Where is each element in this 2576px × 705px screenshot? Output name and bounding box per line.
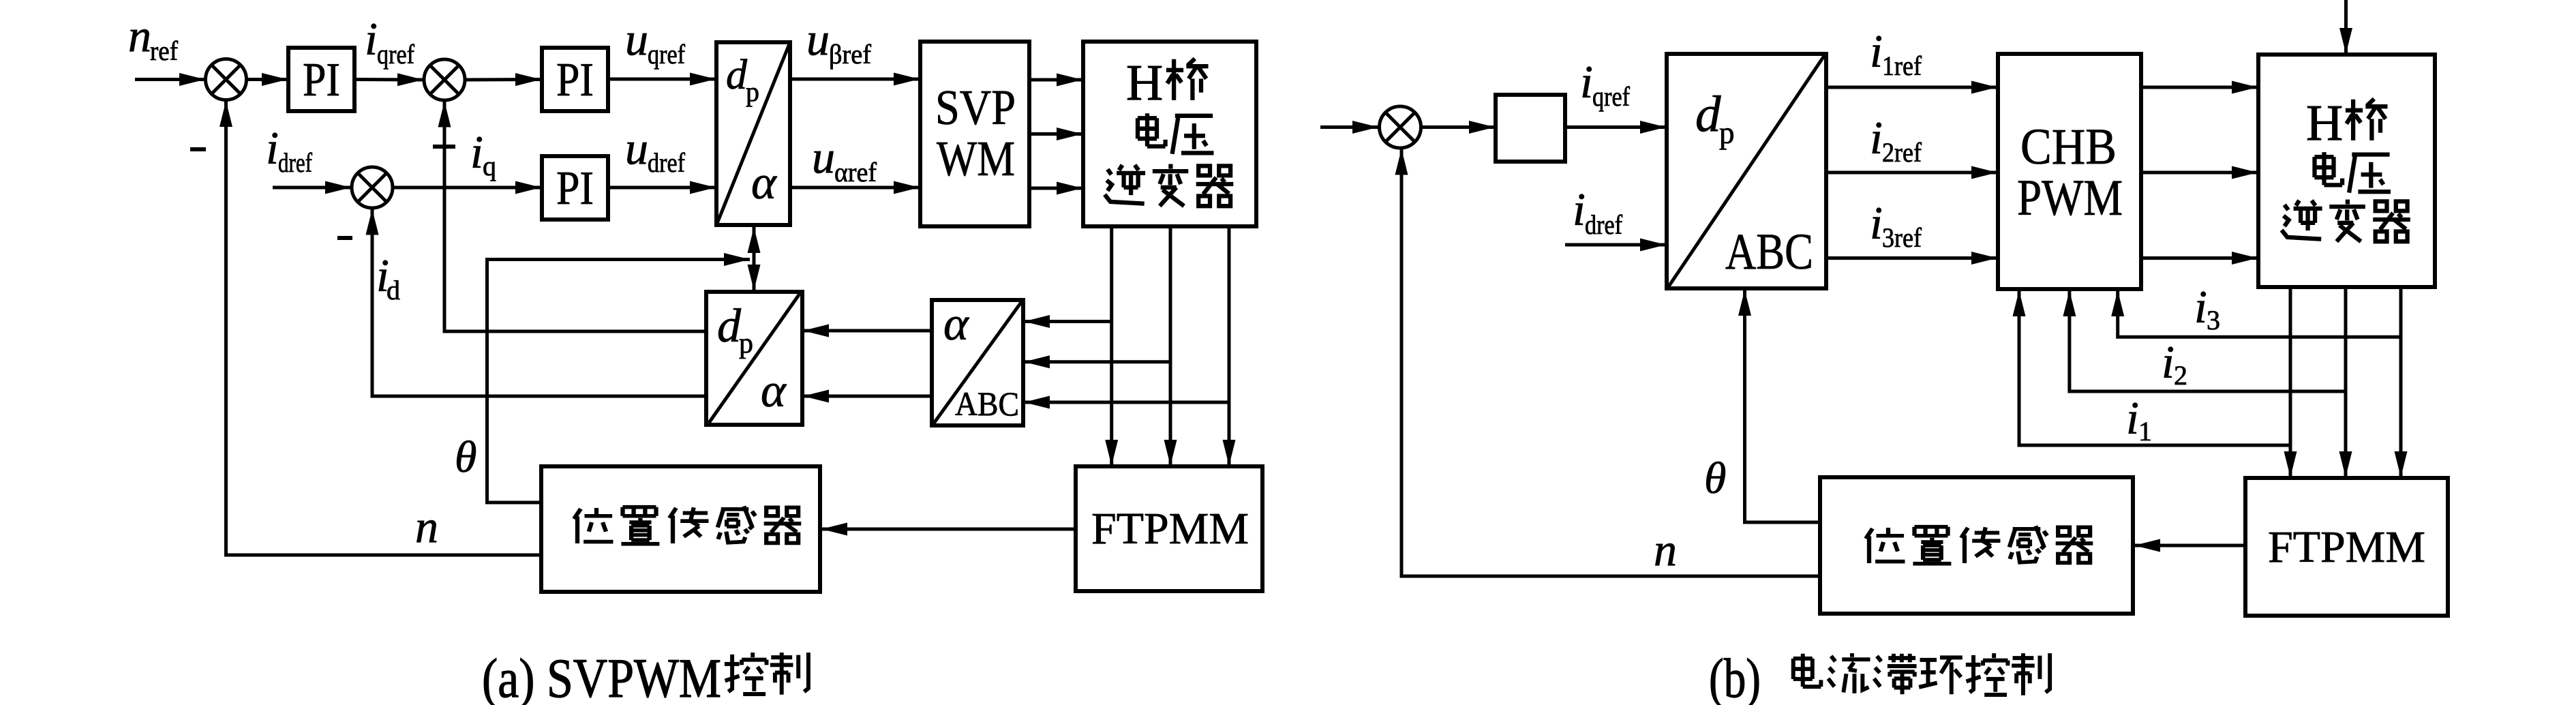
svg-text:qref: qref <box>1592 81 1631 112</box>
svg-text:WM: WM <box>937 131 1015 186</box>
svg-text:βref: βref <box>829 39 872 70</box>
svg-text:i: i <box>365 13 378 65</box>
svg-text:i: i <box>1870 197 1883 249</box>
svg-text:α: α <box>761 365 787 417</box>
svg-text:u: u <box>806 13 830 65</box>
svg-text:FTPMM: FTPMM <box>2268 522 2425 572</box>
svg-text:u: u <box>812 131 835 183</box>
svg-text:u: u <box>625 122 648 174</box>
svg-text:d: d <box>387 275 400 305</box>
svg-text:ref: ref <box>150 35 179 66</box>
svg-text:PI: PI <box>556 162 594 215</box>
svg-text:2: 2 <box>2174 360 2187 391</box>
svg-text:θ: θ <box>455 432 476 482</box>
svg-text:i: i <box>2126 392 2139 444</box>
svg-text:PI: PI <box>556 54 594 106</box>
svg-text:i: i <box>1573 183 1586 235</box>
svg-text:p: p <box>1719 116 1735 150</box>
svg-text:3ref: 3ref <box>1882 222 1922 253</box>
svg-text:FTPMM: FTPMM <box>1091 504 1249 554</box>
svg-text:i: i <box>1870 25 1883 77</box>
svg-text:u: u <box>625 13 648 65</box>
svg-text:qref: qref <box>648 39 686 70</box>
svg-text:d: d <box>726 52 748 98</box>
svg-text:(b): (b) <box>1709 647 1761 705</box>
svg-text:2ref: 2ref <box>1882 137 1922 168</box>
svg-text:PI: PI <box>303 54 340 106</box>
svg-text:d: d <box>1695 86 1721 142</box>
svg-text:i: i <box>1580 56 1593 108</box>
svg-text:3: 3 <box>2207 305 2220 335</box>
svg-text:qref: qref <box>377 39 415 70</box>
svg-text:θ: θ <box>1704 453 1726 503</box>
svg-text:ABC: ABC <box>955 385 1019 423</box>
svg-text:dref: dref <box>1585 209 1623 240</box>
svg-text:d: d <box>717 300 742 352</box>
svg-text:H: H <box>1126 55 1163 111</box>
svg-text:1ref: 1ref <box>1882 50 1922 81</box>
svg-text:n: n <box>128 10 151 61</box>
svg-text:i: i <box>266 122 279 174</box>
svg-text:q: q <box>483 151 496 181</box>
svg-text:dref: dref <box>278 147 313 178</box>
svg-text:i: i <box>2194 281 2207 333</box>
svg-text:ABC: ABC <box>1725 224 1813 280</box>
svg-text:CHB: CHB <box>2020 119 2117 175</box>
svg-text:p: p <box>746 76 759 107</box>
svg-text:1: 1 <box>2138 416 2152 447</box>
svg-text:n: n <box>1654 524 1677 575</box>
svg-text:i: i <box>2162 336 2175 388</box>
svg-text:i: i <box>470 126 483 178</box>
svg-text:α: α <box>751 157 777 209</box>
svg-text:H: H <box>2306 95 2343 151</box>
svg-text:n: n <box>415 500 438 552</box>
svg-text:p: p <box>739 328 753 359</box>
svg-text:PWM: PWM <box>2017 170 2123 226</box>
svg-text:α: α <box>943 298 969 350</box>
svg-text:i: i <box>1870 112 1883 164</box>
svg-text:dref: dref <box>648 147 686 178</box>
svg-text:αref: αref <box>834 157 877 187</box>
svg-text:(a) SVPWM: (a) SVPWM <box>482 647 721 705</box>
svg-text:SVP: SVP <box>935 80 1016 135</box>
